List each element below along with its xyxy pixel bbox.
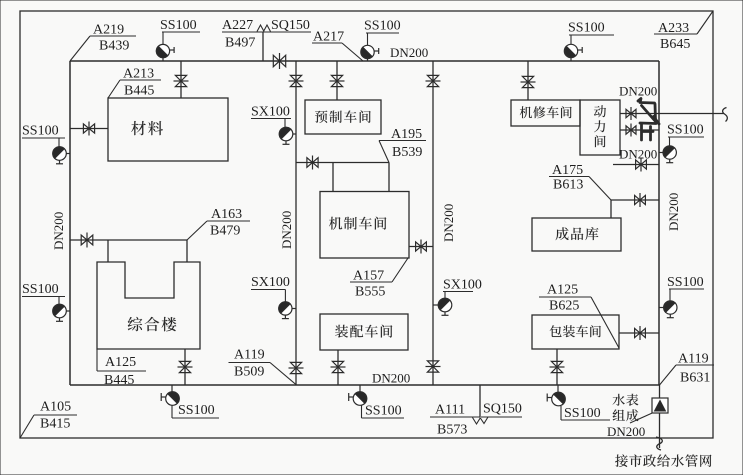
wire: machining workshop east tie bbox=[409, 246, 433, 248]
svg-text:A233: A233 bbox=[658, 21, 689, 36]
valve on west-centre riser (bottom) bbox=[289, 362, 304, 373]
leader: SS100 label connector bbox=[58, 297, 60, 305]
wire: feed into west wing bbox=[107, 240, 109, 262]
wire: machining feed east bbox=[388, 163, 390, 192]
svg-text:B555: B555 bbox=[355, 285, 385, 300]
label: assembly (zu cheng) bbox=[613, 409, 639, 421]
node A105/B415 callout (bottom-left frame corner) bbox=[34, 414, 77, 416]
tap SS100 on bottom main (centre) bbox=[359, 385, 361, 392]
valve below packing workshop bbox=[550, 361, 565, 372]
wire: bottom ring main DN200 bbox=[70, 384, 660, 386]
break squiggle at works outlet bbox=[723, 108, 728, 122]
svg-text:A111: A111 bbox=[435, 403, 465, 418]
svg-text:A213: A213 bbox=[123, 67, 154, 82]
svg-text:B479: B479 bbox=[210, 224, 240, 239]
leader: SX100 label connector bbox=[284, 290, 286, 302]
leader: SX100 label connector bbox=[284, 119, 286, 128]
building: assembly workshop bbox=[320, 314, 408, 350]
svg-text:DN200: DN200 bbox=[390, 45, 428, 60]
svg-text:SS100: SS100 bbox=[667, 275, 704, 290]
valve on machining east tie bbox=[416, 240, 427, 254]
svg-text:DN200: DN200 bbox=[619, 147, 657, 162]
svg-text:SX100: SX100 bbox=[251, 275, 290, 290]
node A213/B445 callout bbox=[120, 79, 161, 81]
leader: SX100 label connector bbox=[444, 292, 446, 299]
valve on west-centre riser (top) bbox=[289, 75, 304, 86]
tap SS100 on left main (lower) bbox=[66, 310, 70, 312]
svg-text:SS100: SS100 bbox=[564, 406, 601, 421]
building: precast workshop bbox=[305, 100, 381, 134]
svg-text:DN200: DN200 bbox=[666, 193, 681, 231]
wire: branch to materials store bbox=[180, 61, 182, 98]
svg-text:B415: B415 bbox=[40, 417, 70, 432]
svg-text:A157: A157 bbox=[353, 269, 384, 284]
wire: branch to materials store west side bbox=[70, 128, 108, 130]
leader: SS100 label connector bbox=[367, 33, 369, 45]
valve on power room stub lower bbox=[626, 124, 636, 137]
svg-text:SQ150: SQ150 bbox=[271, 18, 310, 33]
wire: stub DN200 below power room bbox=[613, 164, 659, 166]
valve on machine-repair branch bbox=[521, 76, 536, 87]
svg-text:DN200: DN200 bbox=[372, 371, 410, 386]
leader: SS100 label connector bbox=[560, 406, 562, 420]
node A125/B445 callout (comprehensive bldg) bbox=[97, 370, 146, 372]
wire: assembly workshop drop bbox=[337, 350, 339, 385]
tap SX100 on east-centre riser bbox=[433, 304, 438, 306]
wire: branch to machining workshop bbox=[296, 162, 389, 164]
label: water meter (shui biao) bbox=[613, 394, 639, 406]
svg-text:SX100: SX100 bbox=[443, 278, 482, 293]
svg-text:A227: A227 bbox=[222, 18, 253, 33]
leader: SS100 label connector bbox=[58, 138, 60, 147]
wire: municipal inlet pipe bbox=[659, 385, 661, 398]
note: connect to municipal water mains bbox=[615, 454, 711, 467]
svg-text:A119: A119 bbox=[234, 348, 265, 363]
tap SS100 on bottom main (east) bbox=[557, 385, 559, 392]
tap SS100 on top main (left) bbox=[162, 58, 164, 61]
node A195/B539 callout bbox=[379, 140, 426, 142]
valve on lower stub bbox=[636, 158, 647, 172]
valve on top ring main bbox=[273, 53, 285, 69]
wire: distribution riser DN200 (west-centre) bbox=[295, 61, 297, 385]
svg-text:A219: A219 bbox=[93, 23, 124, 38]
svg-text:SS100: SS100 bbox=[365, 404, 402, 419]
leader: SS100 label connector bbox=[162, 32, 164, 44]
svg-text:B625: B625 bbox=[549, 299, 579, 314]
valve on east-centre riser (bottom) bbox=[426, 361, 441, 372]
building: materials store bbox=[108, 98, 228, 161]
break squiggle on inlet bbox=[656, 437, 662, 450]
svg-text:SS100: SS100 bbox=[22, 282, 59, 297]
valve on materials branch bbox=[174, 75, 189, 86]
wire: power room stub upper / works outlet bbox=[620, 113, 659, 115]
tap SS100 on top main (right) bbox=[570, 58, 572, 61]
svg-text:B497: B497 bbox=[225, 36, 255, 51]
building: machine repair workshop bbox=[511, 100, 580, 126]
wire: packing workshop drop bbox=[556, 349, 558, 385]
wire: branch to comprehensive building bbox=[70, 239, 187, 241]
leader: water meter label bbox=[630, 413, 652, 423]
node A217 callout bbox=[312, 42, 342, 44]
svg-text:A175: A175 bbox=[552, 163, 583, 178]
wire: power room stub lower bbox=[620, 129, 659, 131]
valve below comprehensive bldg bbox=[178, 361, 193, 372]
svg-text:A125: A125 bbox=[547, 283, 578, 298]
svg-text:DN200: DN200 bbox=[279, 211, 294, 249]
leader: SS100 label connector bbox=[669, 289, 671, 301]
svg-text:B645: B645 bbox=[660, 37, 690, 52]
hydrant SQ150 drop A111/B573 bbox=[479, 385, 481, 417]
valve on east-centre riser (top) bbox=[426, 75, 441, 86]
svg-text:B631: B631 bbox=[680, 371, 710, 386]
wire: comprehensive bldg drain to bottom main bbox=[184, 349, 186, 385]
node A119/B509 callout bbox=[229, 362, 271, 364]
leader: SS100 label connector bbox=[171, 406, 173, 419]
valve on materials west branch bbox=[83, 122, 94, 136]
svg-text:B573: B573 bbox=[437, 423, 467, 438]
wire: finished goods warehouse tie bbox=[611, 199, 659, 201]
svg-text:DN200: DN200 bbox=[441, 204, 456, 242]
building: machining workshop bbox=[320, 192, 409, 259]
wire: branch to precast workshop bbox=[336, 61, 338, 100]
valve on machining branch bbox=[307, 156, 318, 170]
svg-text:SS100: SS100 bbox=[160, 18, 197, 33]
svg-text:SS100: SS100 bbox=[568, 21, 605, 36]
building: finished goods warehouse bbox=[532, 218, 621, 251]
hydrant SQ150 riser A227/B497 bbox=[222, 31, 311, 33]
wire: left ring main DN200 bbox=[69, 61, 71, 385]
node A125/B625 callout (packing workshop) bbox=[539, 296, 591, 298]
node A233/B645 callout (top-right frame corner) bbox=[654, 33, 697, 35]
leader: SS100 label connector bbox=[361, 406, 363, 419]
svg-text:SS100: SS100 bbox=[667, 123, 704, 138]
wire: feed into east wing bbox=[186, 240, 188, 262]
building: packing workshop bbox=[532, 315, 619, 349]
wire: warehouse feed drop bbox=[610, 200, 612, 218]
tap SX100 on west-centre riser (lower) bbox=[292, 308, 296, 310]
tap SS100 on bottom main (west) bbox=[171, 385, 173, 392]
svg-text:B439: B439 bbox=[99, 39, 129, 54]
valve below assembly workshop bbox=[331, 361, 346, 372]
node A163/B479 callout bbox=[207, 220, 250, 222]
node A219/B439 callout (top-left ring corner) bbox=[90, 35, 136, 37]
svg-text:SS100: SS100 bbox=[364, 19, 401, 34]
wire: packing workshop east tie bbox=[619, 332, 659, 334]
node A157/B555 callout bbox=[350, 281, 392, 283]
svg-text:DN200: DN200 bbox=[619, 84, 657, 99]
wire: branch to machine repair workshop bbox=[527, 61, 529, 100]
svg-text:SS100: SS100 bbox=[22, 124, 59, 139]
valve on packing east tie bbox=[635, 326, 646, 340]
svg-text:B509: B509 bbox=[234, 365, 264, 380]
leader: SS100 label connector bbox=[669, 137, 671, 146]
svg-text:A217: A217 bbox=[313, 30, 344, 45]
svg-text:B445: B445 bbox=[124, 84, 154, 99]
svg-text:SS100: SS100 bbox=[178, 403, 215, 418]
svg-text:A163: A163 bbox=[211, 207, 242, 222]
svg-text:A119: A119 bbox=[678, 352, 709, 367]
svg-text:B539: B539 bbox=[392, 145, 422, 160]
valve on power room stub upper bbox=[626, 107, 636, 120]
svg-text:DN200: DN200 bbox=[51, 212, 66, 250]
node A119/B631 callout (inlet junction) bbox=[676, 364, 714, 366]
svg-text:A125: A125 bbox=[105, 355, 136, 370]
leader: SS100 label connector bbox=[570, 35, 572, 44]
building: power room bbox=[580, 100, 620, 155]
wire: right ring main DN200 bbox=[658, 61, 660, 385]
svg-text:SQ150: SQ150 bbox=[483, 402, 522, 417]
tap SX100 on west-centre riser (upper) bbox=[293, 133, 296, 135]
svg-text:A105: A105 bbox=[40, 400, 71, 415]
hand annotation scribble near power room bbox=[638, 99, 659, 141]
valve on precast branch bbox=[330, 75, 345, 86]
label: power room vertical text bbox=[594, 105, 606, 147]
tap SS100 on right main (lower) bbox=[659, 307, 664, 309]
svg-text:B445: B445 bbox=[104, 373, 134, 388]
svg-text:A195: A195 bbox=[391, 127, 422, 142]
valve on comprehensive bldg branch bbox=[81, 233, 93, 248]
tap SS100 on left main (upper) bbox=[66, 153, 70, 155]
wire: top ring main DN200 bbox=[70, 60, 659, 62]
building: comprehensive building (U shape) bbox=[97, 262, 200, 349]
wire: distribution riser DN200 (east-centre) bbox=[432, 61, 434, 385]
valve on warehouse tie bbox=[635, 193, 646, 207]
svg-text:B613: B613 bbox=[553, 178, 583, 193]
svg-text:DN200: DN200 bbox=[607, 424, 645, 439]
tap SS100 on right main (upper) bbox=[659, 152, 663, 154]
wire: machining feed west bbox=[332, 163, 334, 192]
tap SS100 on top main (centre) bbox=[367, 59, 369, 61]
node A175/B613 callout bbox=[549, 176, 589, 178]
svg-text:SX100: SX100 bbox=[251, 105, 290, 120]
